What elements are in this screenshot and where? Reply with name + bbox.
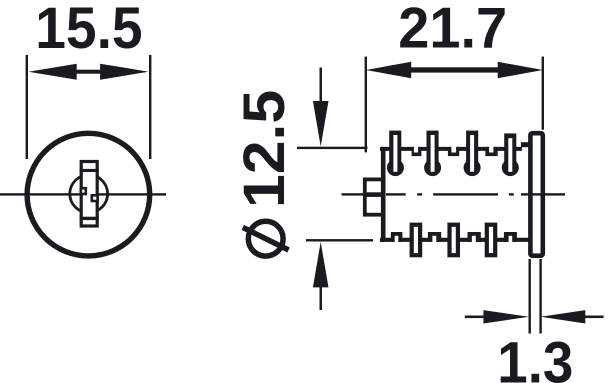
dimension 21.7 middle bar [410,67,499,72]
outer circle (cylinder face) [27,133,150,256]
top edge notch tab 3 [485,146,497,156]
keyway body (vertical rectangle, white filled) [81,162,97,227]
inner circle (core) [70,175,108,213]
dimension text 15.5 [35,0,142,62]
cam nub middle divider [363,192,383,197]
keyway right notch square [92,195,98,201]
tumbler T3 (top) [464,131,481,177]
svg-text:21.7: 21.7 [398,0,507,61]
tumbler T4 (top, near flange) [502,133,519,176]
top edge raised step near flange [521,142,530,147]
centerline dot 2 [509,193,514,195]
tumbler T2 (top) [424,131,441,177]
dimension 15.5 middle bar [76,70,101,74]
dimension 1.3 left arrow (pointing right) [465,310,529,323]
dimension Ø12.5 top arrow (pointing down) [313,68,329,147]
svg-text:15.5: 15.5 [35,0,142,62]
bottom edge notch tab 4 [504,232,517,243]
centerline (front view, right segment) [97,193,167,195]
svg-text:1.3: 1.3 [497,331,573,383]
top edge notch tab 2 [448,146,459,156]
dimension 1.3 left extension line [529,259,531,334]
dimension 15.5 right extension line [149,55,151,159]
body bottom edge band [380,238,529,242]
dimension text 12.5 (rotated, digits only) [231,90,297,208]
dimension 1.3 right arrow (pointing left) [541,310,604,323]
bottom wafer W3 [485,223,498,258]
dimension 21.7 right arrowhead [498,62,543,78]
dimension Ø12.5 top extension line [297,147,368,149]
dimension Ø12.5 bottom extension line [306,239,373,241]
keyway left notch square [81,188,86,194]
dimension 1.3 right extension line [539,259,541,334]
keyway bottom divider [80,217,99,220]
dimension 15.5 left extension line [26,55,28,159]
bottom edge notch tab 3 [468,232,481,243]
flange (right end plate) [530,133,542,256]
body left edge [381,147,386,242]
centerline dash (right of body left edge) [386,193,406,195]
top edge notch tab 1 [412,146,422,156]
centerline (front view, left segment) [0,193,81,195]
dimension 21.7 right extension line [542,57,544,130]
dimension 21.7 left extension line [365,57,367,153]
svg-text:12.5: 12.5 [231,90,297,208]
dimension text 1.3 [497,331,573,383]
dimension 15.5 right arrowhead [100,64,148,80]
dimension text 21.7 [398,0,507,61]
bottom edge notch tab 1 [391,232,403,243]
dimension Ø12.5 bottom arrow (pointing up) [313,242,329,310]
cam nub (left, white filled with stroke) [365,179,384,214]
centerline long dash [433,193,498,195]
centerline dot 1 [417,193,422,195]
tumbler T1 (top) [387,131,404,177]
diameter symbol circle [248,221,283,256]
bottom wafer W1 [410,223,423,258]
centerline end segment (through flange) [521,193,565,195]
keyway top divider [80,169,99,172]
body top edge band [380,147,522,151]
bottom wafer W2 [447,223,460,258]
diameter symbol slash [243,227,289,250]
centerline dash (left of nub) [342,193,366,195]
dimension 21.7 left arrowhead [366,62,411,78]
bottom edge notch tab 2 [428,232,441,243]
dimension 15.5 left arrowhead [29,64,77,80]
